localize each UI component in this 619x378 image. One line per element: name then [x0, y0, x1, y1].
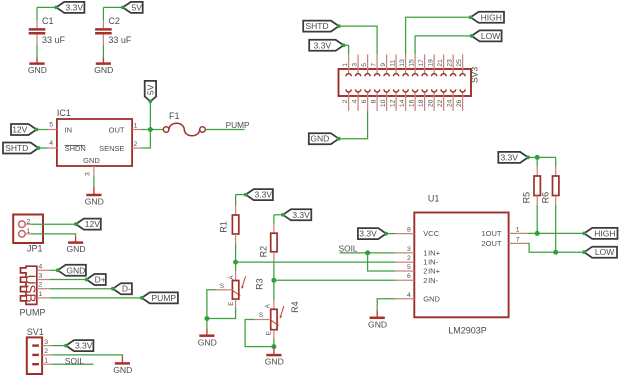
svg-text:2: 2	[44, 348, 48, 355]
svg-text:3: 3	[407, 246, 411, 253]
svg-text:SV3: SV3	[470, 67, 480, 83]
svg-text:4: 4	[49, 140, 53, 147]
svg-text:LOW: LOW	[481, 31, 500, 41]
svg-text:GND: GND	[66, 244, 85, 254]
svg-text:2 IN+: 2 IN+	[423, 267, 440, 276]
svg-text:2 IN-: 2 IN-	[423, 276, 438, 285]
svg-text:12: 12	[390, 99, 397, 107]
svg-text:IC1: IC1	[57, 108, 71, 118]
svg-text:HIGH: HIGH	[481, 12, 502, 22]
svg-text:12V: 12V	[12, 125, 27, 135]
svg-text:2: 2	[39, 282, 43, 289]
svg-text:PUMP: PUMP	[20, 307, 46, 317]
svg-text:8: 8	[407, 227, 411, 234]
svg-text:R3: R3	[254, 278, 264, 290]
svg-text:U1: U1	[428, 193, 440, 203]
svg-text:3: 3	[352, 63, 359, 67]
svg-text:SENSE: SENSE	[99, 144, 124, 153]
svg-text:GND: GND	[265, 357, 284, 367]
svg-text:D+: D+	[95, 275, 106, 285]
svg-text:JP1: JP1	[27, 244, 43, 254]
svg-text:17: 17	[418, 59, 425, 67]
svg-text:GND: GND	[368, 319, 387, 329]
svg-text:SHTD: SHTD	[5, 143, 28, 153]
svg-text:12V: 12V	[85, 219, 100, 229]
svg-text:E: E	[265, 331, 272, 335]
svg-text:R1: R1	[219, 221, 229, 233]
svg-text:R6: R6	[541, 192, 551, 204]
svg-text:16: 16	[409, 99, 416, 107]
svg-text:GND: GND	[66, 265, 85, 275]
svg-text:25: 25	[456, 59, 463, 67]
svg-text:21: 21	[437, 59, 444, 67]
svg-text:7: 7	[371, 63, 378, 67]
svg-text:GND: GND	[113, 365, 132, 375]
svg-text:1: 1	[44, 358, 48, 365]
svg-text:LOW: LOW	[595, 247, 614, 257]
svg-text:13: 13	[399, 59, 406, 67]
svg-text:4: 4	[407, 292, 411, 299]
svg-text:3.3V: 3.3V	[359, 229, 377, 239]
svg-text:3.3V: 3.3V	[255, 190, 273, 200]
svg-text:33 uF: 33 uF	[42, 35, 66, 45]
svg-text:19: 19	[428, 59, 435, 67]
svg-text:20: 20	[428, 99, 435, 107]
svg-text:23: 23	[447, 59, 454, 67]
svg-text:15: 15	[409, 59, 416, 67]
svg-text:2: 2	[134, 141, 138, 148]
svg-text:18: 18	[418, 99, 425, 107]
svg-text:3.3V: 3.3V	[66, 2, 84, 12]
svg-text:3.3V: 3.3V	[292, 210, 310, 220]
svg-text:1OUT: 1OUT	[481, 229, 501, 238]
svg-text:11: 11	[390, 60, 397, 67]
svg-text:SHTD: SHTD	[305, 21, 328, 31]
svg-text:1 IN+: 1 IN+	[423, 249, 440, 258]
svg-text:3.3V: 3.3V	[314, 40, 332, 50]
svg-text:22: 22	[437, 99, 444, 107]
svg-text:R2: R2	[258, 246, 268, 258]
svg-text:4: 4	[352, 99, 359, 103]
svg-text:1: 1	[516, 226, 520, 233]
svg-text:F1: F1	[169, 111, 180, 121]
svg-text:GND: GND	[28, 65, 47, 75]
svg-text:5V: 5V	[146, 84, 156, 95]
svg-text:5: 5	[407, 264, 411, 271]
svg-text:OUT: OUT	[109, 125, 125, 134]
svg-text:C2: C2	[108, 16, 120, 26]
svg-text:1: 1	[134, 123, 138, 130]
svg-text:R5: R5	[522, 192, 532, 204]
svg-text:S: S	[220, 283, 224, 290]
svg-text:9: 9	[380, 63, 387, 67]
svg-text:2OUT: 2OUT	[481, 239, 501, 248]
svg-text:3: 3	[44, 339, 48, 346]
svg-text:3.3V: 3.3V	[75, 341, 93, 351]
svg-text:3: 3	[85, 172, 92, 176]
svg-text:6: 6	[361, 99, 368, 103]
svg-text:5V: 5V	[132, 2, 143, 12]
svg-text:7: 7	[516, 236, 520, 243]
svg-text:5: 5	[361, 63, 368, 67]
svg-text:IN: IN	[65, 125, 73, 134]
svg-text:14: 14	[399, 99, 406, 107]
svg-text:5: 5	[49, 122, 53, 129]
svg-text:GND: GND	[85, 197, 104, 207]
svg-text:GND: GND	[310, 134, 329, 144]
svg-text:33 uF: 33 uF	[108, 35, 132, 45]
svg-text:GND: GND	[83, 156, 100, 165]
svg-text:D-: D-	[122, 284, 131, 294]
svg-text:6: 6	[407, 273, 411, 280]
svg-text:1: 1	[39, 291, 43, 298]
svg-text:PUMP: PUMP	[226, 120, 250, 130]
svg-text:2: 2	[342, 99, 349, 103]
svg-text:1 IN-: 1 IN-	[423, 258, 438, 267]
svg-text:USB: USB	[23, 275, 38, 303]
svg-text:GND: GND	[94, 65, 113, 75]
svg-text:A: A	[228, 275, 235, 280]
svg-text:SOIL: SOIL	[65, 356, 84, 366]
svg-text:PUMP: PUMP	[152, 293, 177, 303]
svg-text:GND: GND	[423, 294, 440, 303]
svg-text:3: 3	[39, 273, 43, 280]
svg-text:26: 26	[456, 99, 463, 107]
svg-text:SV1: SV1	[27, 327, 44, 337]
svg-text:4: 4	[39, 263, 43, 270]
svg-text:10: 10	[380, 99, 387, 107]
svg-text:VCC: VCC	[423, 229, 439, 238]
svg-text:1: 1	[342, 63, 349, 67]
svg-text:LM2903P: LM2903P	[448, 325, 487, 335]
svg-text:3.3V: 3.3V	[500, 152, 518, 162]
svg-text:S: S	[259, 312, 263, 319]
svg-text:A: A	[264, 303, 271, 308]
svg-text:8: 8	[371, 99, 378, 103]
svg-text:2: 2	[407, 255, 411, 262]
svg-text:E: E	[228, 302, 235, 306]
svg-text:HIGH: HIGH	[594, 228, 615, 238]
svg-text:GND: GND	[198, 337, 217, 347]
svg-text:C1: C1	[42, 16, 54, 26]
svg-text:SOIL: SOIL	[339, 243, 358, 253]
svg-text:R4: R4	[290, 301, 300, 313]
svg-text:24: 24	[447, 99, 454, 107]
